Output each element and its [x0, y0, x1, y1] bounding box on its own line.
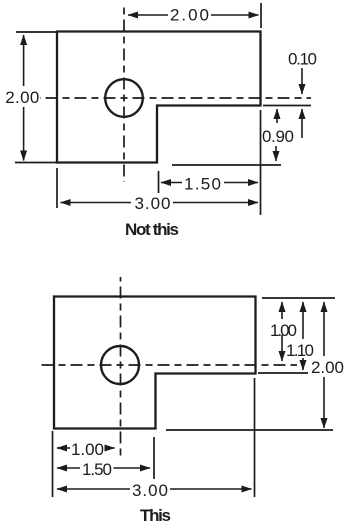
- svg-text:Not this: Not this: [125, 220, 179, 239]
- svg-text:1.00: 1.00: [270, 321, 297, 340]
- dimension 2.00 right: upper arrow: [323, 302, 325, 356]
- part outline (L-shaped block, top figure): [57, 32, 261, 163]
- extension line right edge downward (top figure): [260, 110, 262, 215]
- dimension 1.00 bottom: left arrow: [57, 447, 70, 449]
- svg-text:This: This: [140, 506, 171, 525]
- svg-text:3.00: 3.00: [135, 194, 171, 213]
- svg-text:2.00: 2.00: [5, 88, 39, 107]
- dimension 2.00 left: upper arrow: [23, 35, 25, 86]
- extension line top-right vertical (top figure): [260, 3, 262, 28]
- extension line right edge downward (bottom figure): [254, 378, 256, 497]
- extension line step-right (top figure): [263, 105, 311, 107]
- dimension 3.00 (bottom figure): right arrow: [170, 488, 252, 490]
- extension line top-right horizontal (bottom figure): [262, 297, 335, 299]
- extension line bottom-right (top figure): [172, 164, 281, 166]
- dimension 1.00 right: upper arrow: [281, 302, 283, 319]
- svg-text:0.90: 0.90: [262, 127, 294, 146]
- extension line below left edge (bottom figure): [52, 431, 54, 497]
- dimension 2.00 top: right arrow: [211, 14, 259, 16]
- horizontal centerline (top figure): [40, 97, 311, 99]
- dimension 2.00 right: lower arrow: [323, 377, 325, 428]
- extension line top-left (top figure): [16, 31, 56, 33]
- hole circle (top figure): [105, 79, 143, 117]
- vertical centerline (top figure): [123, 3, 125, 182]
- dimension 0.90: lower arrow pointing down: [275, 146, 277, 161]
- dimension 3.00 (top figure): left arrow: [61, 202, 132, 204]
- svg-text:1.10: 1.10: [286, 341, 314, 360]
- svg-text:1.50: 1.50: [184, 175, 221, 194]
- dimension 0.10: upper arrow pointing down: [301, 68, 303, 94]
- dimension 0.10: lower arrow pointing up: [301, 109, 303, 138]
- dimension 1.50 (top figure): right arrow: [224, 182, 258, 184]
- vertical centerline (bottom figure): [120, 277, 122, 458]
- horizontal centerline (bottom figure): [39, 364, 297, 366]
- dimension 1.50 (bottom figure): left arrow: [57, 467, 80, 469]
- extension line step-right (bottom figure): [258, 372, 308, 374]
- dimension 1.50 (top figure): left arrow: [161, 182, 182, 184]
- extension line below step (top figure): [158, 171, 160, 193]
- extension line bottom-left (top figure): [15, 162, 56, 164]
- dimension 3.00 (bottom figure): left arrow: [57, 488, 130, 490]
- dimension 1.10: lower arrow: [302, 358, 304, 370]
- svg-text:3.00: 3.00: [132, 481, 168, 500]
- dimension 3.00 (top figure): right arrow: [173, 202, 258, 204]
- svg-text:0.10: 0.10: [288, 50, 317, 69]
- dimension 2.00 top: left arrow: [128, 14, 168, 16]
- extension line bottom-right (bottom figure): [166, 429, 333, 431]
- extension line below left edge (top figure): [56, 168, 58, 208]
- svg-text:2.00: 2.00: [170, 6, 209, 25]
- svg-text:1.00: 1.00: [71, 440, 104, 459]
- dimension 1.50 (bottom figure): right arrow: [114, 467, 151, 469]
- svg-text:1.50: 1.50: [82, 460, 112, 479]
- dimension 1.00 bottom: right arrow: [106, 447, 115, 449]
- extension line below step (bottom figure): [153, 437, 155, 479]
- svg-text:2.00: 2.00: [311, 358, 344, 377]
- dimension 1.00 right: lower arrow: [281, 335, 283, 361]
- part outline (L-shaped block, bottom figure): [54, 297, 256, 429]
- dimension 2.00 left: lower arrow: [23, 107, 25, 161]
- hole circle (bottom figure): [101, 346, 139, 384]
- dimension 1.10: upper arrow: [302, 302, 304, 339]
- dimension 0.90: upper arrow pointing up: [276, 109, 278, 123]
